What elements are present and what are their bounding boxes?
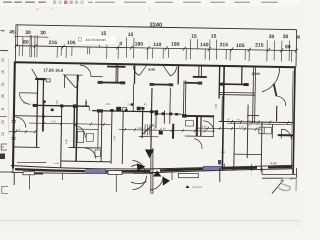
row B texts bbox=[9, 29, 302, 41]
svg-text:180: 180 bbox=[135, 41, 144, 47]
extension verticals to wall bbox=[19, 35, 292, 62]
toolbar icons bbox=[53, 1, 84, 4]
left step + projection bbox=[13, 172, 15, 185]
svg-text:12: 12 bbox=[1, 132, 5, 136]
solid triangle pointing down bbox=[145, 150, 154, 159]
left end extras bbox=[0, 171, 13, 173]
svg-text:2.90: 2.90 bbox=[16, 129, 21, 132]
section marker A bbox=[186, 185, 190, 188]
row C texts bbox=[23, 38, 291, 50]
thick wall right low bbox=[278, 134, 294, 136]
bottom separator bbox=[0, 220, 300, 222]
long wall x219.7 upper / x224 full bbox=[218, 65, 221, 98]
svg-text:80: 80 bbox=[23, 40, 29, 46]
wall x38-44 with cap bbox=[35, 78, 45, 80]
svg-text:1.60: 1.60 bbox=[65, 139, 68, 144]
svg-text:36: 36 bbox=[1, 94, 5, 98]
svg-text:45: 45 bbox=[296, 35, 300, 41]
door arc bottom-left wall bbox=[15, 117, 26, 128]
svg-text:17.20: 17.20 bbox=[153, 124, 156, 131]
wall x254 pair bbox=[252, 66, 255, 123]
wall x62.5 bbox=[61, 106, 62, 168]
balcony jambs bbox=[133, 64, 135, 84]
svg-text:17.85 16.8: 17.85 16.8 bbox=[43, 67, 64, 72]
faint pink marks on page top bbox=[36, 8, 39, 10]
svg-text:9.80: 9.80 bbox=[148, 68, 155, 72]
corridor horizontals left/center bbox=[33, 104, 90, 107]
svg-text:4.60: 4.60 bbox=[220, 151, 225, 154]
svg-text:1.70: 1.70 bbox=[239, 126, 244, 129]
WC room walls bbox=[110, 111, 113, 164]
left room divider bbox=[14, 115, 61, 118]
svg-text:51: 51 bbox=[1, 82, 5, 86]
svg-text:80: 80 bbox=[285, 44, 291, 50]
toolbar strip bbox=[0, 0, 300, 6]
entrance door swing lower bbox=[133, 176, 147, 190]
I-beam divider bbox=[115, 65, 117, 83]
interior dim row center bbox=[119, 130, 214, 132]
dimension line C bbox=[15, 46, 296, 51]
projection under sill 1 bbox=[115, 175, 117, 193]
white sill rects bbox=[23, 172, 35, 175]
verticals right block bbox=[233, 122, 236, 171]
fixtures right room bbox=[259, 127, 272, 134]
entrance door swing upper bbox=[133, 161, 146, 173]
thick wall center-bottom bbox=[182, 115, 214, 118]
corridor junction wall bbox=[85, 101, 87, 107]
svg-text:30: 30 bbox=[1, 58, 5, 62]
door arcs right wall bbox=[262, 68, 279, 92]
svg-text:6.00: 6.00 bbox=[215, 103, 218, 108]
wall x44 bbox=[42, 101, 45, 132]
door arc top wall x80-91 bbox=[80, 65, 91, 76]
dimension line B (left cluster) bbox=[14, 36, 48, 39]
door bottom right bbox=[280, 129, 282, 138]
svg-text:30: 30 bbox=[269, 34, 275, 40]
slash ticks on line C bbox=[15, 44, 298, 53]
svg-text:30: 30 bbox=[283, 34, 289, 40]
svg-text:215: 215 bbox=[220, 42, 229, 48]
thick wall segments bbox=[15, 167, 292, 172]
tooltip Add Bookmark bbox=[76, 35, 118, 45]
short wall-end ticks above band bbox=[223, 164, 225, 171]
small ticks below band bbox=[61, 174, 63, 181]
svg-text:16: 16 bbox=[1, 70, 5, 74]
purple window left bbox=[86, 169, 106, 173]
left wall window hatches bbox=[11, 120, 16, 139]
svg-text:215: 215 bbox=[49, 40, 58, 46]
svg-text:0: 0 bbox=[119, 41, 122, 47]
svg-text:17.20: 17.20 bbox=[248, 119, 251, 126]
svg-text:15: 15 bbox=[191, 34, 197, 40]
svg-text:2240: 2240 bbox=[150, 22, 163, 28]
door arc into bathroom bbox=[74, 126, 85, 138]
room divider right horizontals bbox=[219, 91, 255, 94]
svg-text:105: 105 bbox=[67, 40, 76, 46]
interior dim row left bbox=[9, 130, 37, 132]
right step bbox=[261, 168, 263, 175]
svg-text:14.1: 14.1 bbox=[85, 98, 88, 103]
svg-text:180: 180 bbox=[171, 42, 180, 48]
bathroom fixtures left bbox=[77, 132, 83, 143]
diagonal break mark bbox=[272, 180, 284, 194]
right corridor horizontals bbox=[219, 121, 294, 122]
wall x219.8 tick below band bbox=[219, 168, 221, 182]
svg-text:45: 45 bbox=[9, 29, 15, 35]
wall x75/77.8 bbox=[73, 106, 76, 148]
door arc left room bbox=[19, 93, 30, 104]
junction blobs bbox=[33, 104, 187, 120]
shaft dark verticals bbox=[196, 116, 198, 136]
svg-text:05: 05 bbox=[1, 120, 5, 124]
upper-right room: door leaf + arc + wall x277.5 bbox=[273, 84, 276, 97]
door arc near stairs bbox=[194, 139, 202, 149]
left wall bbox=[13, 61, 15, 168]
svg-text:3.05: 3.05 bbox=[56, 99, 59, 104]
bottom wall outer line bbox=[11, 169, 293, 174]
ticks under the 15s bbox=[100, 36, 290, 50]
svg-text:110: 110 bbox=[153, 42, 161, 48]
tiny dimension texts bbox=[15, 97, 252, 169]
bottom wall inner line bbox=[11, 165, 293, 169]
S glyph bottom right (light gray) bbox=[278, 178, 292, 190]
svg-text:4.60: 4.60 bbox=[270, 161, 276, 165]
french doors on top wall (left pair) bbox=[133, 65, 146, 75]
svg-text:1.80: 1.80 bbox=[127, 103, 132, 106]
room top line bbox=[63, 74, 83, 76]
lower-left horizontals bbox=[14, 146, 40, 148]
wall x184-186 with sill bbox=[182, 80, 185, 116]
top wall bbox=[15, 62, 295, 67]
entrance vestibule walls bbox=[150, 148, 152, 194]
svg-text:15: 15 bbox=[211, 34, 217, 40]
left margin dash bbox=[0, 50, 8, 52]
svg-text:2.90: 2.90 bbox=[105, 103, 110, 106]
long central wall bbox=[151, 88, 152, 150]
sill rail right apartment bbox=[220, 83, 249, 86]
stairwell verticals + treads bbox=[141, 107, 144, 138]
small open rect right of cap bbox=[46, 79, 50, 82]
svg-text:3: 3 bbox=[1, 146, 5, 148]
svg-text:140: 140 bbox=[200, 42, 209, 48]
door leaf diagonal into cap bbox=[32, 69, 38, 79]
svg-text:4.05: 4.05 bbox=[51, 120, 56, 123]
svg-text:Add Bookmark: Add Bookmark bbox=[85, 38, 106, 42]
bathroom walls left bbox=[97, 111, 100, 148]
svg-text:30: 30 bbox=[40, 30, 46, 36]
svg-text:105: 105 bbox=[236, 43, 245, 49]
right extension vertical bbox=[295, 30, 298, 67]
fixtures right of stairs bbox=[185, 120, 193, 126]
svg-text:15: 15 bbox=[128, 32, 134, 38]
dimension line A (overall) bbox=[16, 25, 297, 30]
svg-text:17.00: 17.00 bbox=[251, 72, 260, 76]
interior dim row right bbox=[196, 128, 261, 129]
black squares center bbox=[137, 107, 141, 111]
interior dim row left-center bbox=[29, 123, 111, 124]
svg-text:215: 215 bbox=[255, 42, 264, 48]
svg-text:4.05: 4.05 bbox=[23, 102, 28, 105]
I-beam divider 2 bbox=[198, 65, 200, 76]
svg-text:2.90: 2.90 bbox=[202, 125, 207, 128]
door leaf + arc at x64-77 bbox=[63, 75, 65, 88]
right wall bbox=[293, 66, 295, 173]
svg-text:2.90: 2.90 bbox=[137, 127, 142, 130]
left extension vertical bbox=[14, 25, 17, 62]
svg-text:2.30: 2.30 bbox=[113, 135, 116, 140]
purple window right bbox=[204, 166, 222, 170]
svg-text:2.40: 2.40 bbox=[161, 127, 166, 130]
balcony sill center bbox=[150, 83, 173, 85]
svg-text:4.05: 4.05 bbox=[54, 162, 59, 165]
